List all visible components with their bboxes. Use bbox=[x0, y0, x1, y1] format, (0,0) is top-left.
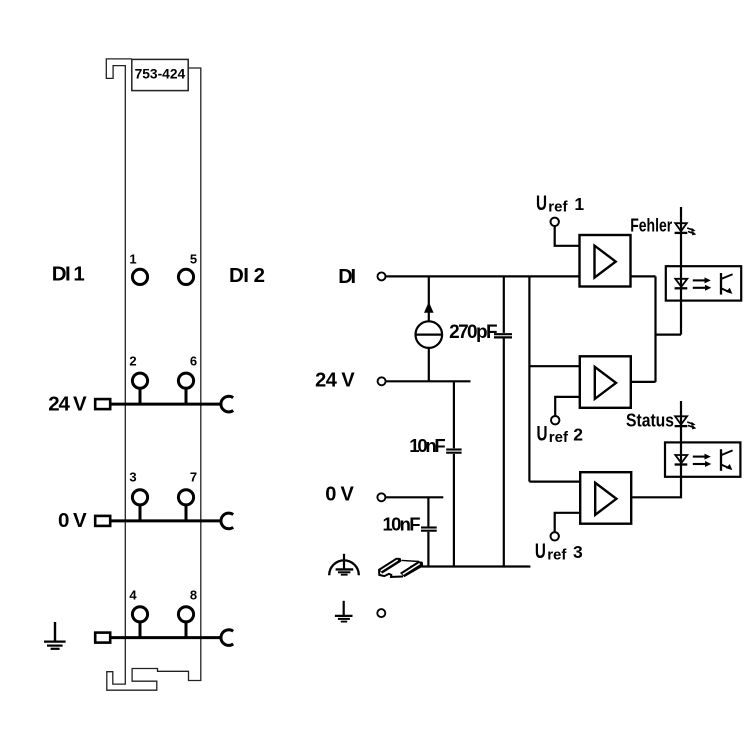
stem pin6 bbox=[185, 388, 188, 404]
Status optocoupler box bbox=[665, 442, 740, 476]
svg-text:24 V: 24 V bbox=[48, 393, 87, 416]
pin circle 6 bbox=[178, 373, 193, 388]
pin circle 4 bbox=[132, 607, 147, 622]
opto2 vertical wire through box bbox=[680, 442, 682, 477]
current source lower wire bbox=[428, 348, 430, 381]
stem pin4 bbox=[139, 622, 142, 638]
0V power rail row bbox=[95, 470, 233, 529]
Status LED vertical wire bbox=[680, 401, 682, 442]
amp1 output wire bbox=[631, 275, 656, 277]
pin circle 5 bbox=[178, 269, 193, 284]
Uref1 terminal circle bbox=[551, 218, 559, 226]
0V cage clamp hook bbox=[221, 513, 233, 529]
amp3 input wire bbox=[529, 481, 580, 483]
10nF capacitor 1 wire (upper) bbox=[453, 381, 455, 448]
earth rail row bbox=[95, 587, 233, 645]
stem pin2 bbox=[139, 388, 142, 404]
label Uref 1 bbox=[536, 192, 584, 215]
24V bus wire bbox=[110, 403, 222, 406]
svg-text:ref: ref bbox=[548, 199, 568, 216]
Uref2 wire bbox=[555, 397, 580, 416]
svg-text:4: 4 bbox=[129, 587, 137, 602]
op-amp U2 triangle bbox=[595, 367, 616, 399]
bottom terminal circle bbox=[377, 609, 385, 617]
Fehler LED vertical wire bbox=[680, 207, 682, 335]
svg-text:3: 3 bbox=[129, 470, 136, 485]
shield earth symbol bbox=[329, 554, 359, 575]
svg-text:DI 1: DI 1 bbox=[52, 263, 85, 286]
svg-text:Fehler: Fehler bbox=[630, 216, 672, 236]
stem pin3 bbox=[139, 505, 142, 521]
svg-text:U: U bbox=[537, 423, 548, 446]
svg-text:U: U bbox=[536, 192, 547, 215]
amp2 output wire bbox=[631, 381, 656, 383]
opto2 LED bbox=[675, 455, 688, 465]
Uref1 wire bbox=[555, 226, 580, 246]
svg-text:ref: ref bbox=[547, 547, 567, 564]
svg-text:1: 1 bbox=[574, 194, 584, 214]
amp3 output wire to Status opto bbox=[631, 477, 682, 497]
Fehler optocoupler box bbox=[666, 266, 741, 300]
Uref2 terminal circle bbox=[551, 416, 559, 424]
0V wire bbox=[386, 496, 444, 498]
svg-text:1: 1 bbox=[129, 251, 136, 266]
label box 753-424 bbox=[132, 59, 188, 90]
current source arrow bbox=[424, 302, 434, 313]
10nF capacitor 1 wire (lower) bbox=[453, 454, 455, 567]
ground symbol (module left) bbox=[44, 622, 66, 649]
svg-text:0 V: 0 V bbox=[58, 509, 87, 532]
module body outline bbox=[106, 59, 201, 690]
bottom earth symbol bbox=[335, 601, 353, 622]
10nF capacitor 2 plates bbox=[421, 526, 437, 528]
comparator input bus wire bbox=[528, 276, 530, 481]
current source chord bbox=[416, 334, 443, 336]
pin circle 8 bbox=[178, 607, 193, 622]
DIN carrier rail symbol bbox=[378, 558, 423, 577]
0V terminal circle bbox=[377, 493, 385, 501]
Uref3 wire bbox=[555, 513, 581, 532]
DI wire bbox=[386, 275, 580, 277]
24V power rail row bbox=[95, 354, 233, 412]
op-amp U3 box bbox=[580, 472, 631, 524]
pin circle 1 bbox=[132, 269, 147, 284]
270pF capacitor vertical wire (upper) bbox=[503, 276, 505, 333]
0V square terminal bbox=[95, 516, 110, 526]
link to Fehler optocoupler bbox=[656, 334, 682, 336]
opto2 phototransistor bbox=[721, 449, 733, 471]
opto1 phototransistor bbox=[721, 273, 733, 295]
DI terminal circle bbox=[378, 272, 386, 280]
Uref3 terminal circle bbox=[551, 532, 559, 540]
24V square terminal bbox=[95, 399, 110, 409]
label Uref 3 bbox=[535, 540, 583, 563]
svg-text:7: 7 bbox=[190, 470, 197, 485]
0V bus wire bbox=[110, 519, 222, 522]
pin circle 2 bbox=[132, 373, 147, 388]
svg-text:8: 8 bbox=[190, 587, 197, 602]
current source branch wire bbox=[428, 276, 430, 321]
amp output join bus bbox=[654, 276, 656, 382]
svg-text:753-424: 753-424 bbox=[135, 67, 186, 82]
270pF capacitor plates bbox=[494, 333, 512, 335]
svg-text:U: U bbox=[535, 540, 546, 563]
svg-text:270pF: 270pF bbox=[449, 322, 498, 343]
op-amp U1 box bbox=[580, 235, 631, 287]
amp2 input wire bbox=[529, 365, 579, 367]
svg-text:10nF: 10nF bbox=[409, 435, 445, 456]
svg-text:2: 2 bbox=[573, 425, 583, 445]
svg-text:DI 2: DI 2 bbox=[229, 264, 265, 287]
svg-text:5: 5 bbox=[190, 251, 197, 266]
svg-text:2: 2 bbox=[129, 354, 136, 369]
opto1 light arrows bbox=[693, 277, 712, 290]
svg-text:ref: ref bbox=[549, 429, 569, 446]
current source circle bbox=[416, 321, 443, 348]
stem pin8 bbox=[185, 622, 188, 638]
label Uref 2 bbox=[537, 423, 584, 446]
svg-text:DI: DI bbox=[338, 266, 356, 288]
op-amp U2 box bbox=[580, 356, 631, 408]
svg-text:Status: Status bbox=[626, 410, 674, 430]
10nF capacitor 2 wire (lower) bbox=[427, 532, 429, 567]
pin circle 7 bbox=[178, 490, 193, 505]
earth cage clamp hook bbox=[221, 630, 233, 646]
svg-text:3: 3 bbox=[573, 542, 583, 562]
svg-text:24 V: 24 V bbox=[315, 369, 355, 391]
svg-text:0 V: 0 V bbox=[325, 483, 354, 505]
24V wire bbox=[386, 380, 471, 382]
op-amp U3 triangle bbox=[595, 483, 616, 515]
Status LED bbox=[675, 416, 697, 429]
earth square terminal bbox=[95, 633, 110, 643]
24V cage clamp hook bbox=[221, 396, 233, 412]
op-amp U1 triangle bbox=[595, 246, 616, 278]
Fehler LED bbox=[675, 223, 697, 235]
stem pin7 bbox=[185, 505, 188, 521]
earth bus wire bbox=[110, 636, 222, 639]
opto2 light arrows bbox=[693, 454, 712, 467]
270pF capacitor vertical wire (lower) bbox=[503, 339, 505, 567]
svg-text:6: 6 bbox=[190, 354, 197, 369]
svg-text:10nF: 10nF bbox=[383, 514, 421, 535]
opto1 LED bbox=[675, 279, 688, 289]
24V terminal circle bbox=[378, 377, 386, 385]
shield ground wire bbox=[410, 565, 530, 567]
pin circle 3 bbox=[132, 490, 147, 505]
10nF capacitor 2 wire (upper) bbox=[427, 497, 429, 526]
10nF capacitor 1 plates bbox=[446, 448, 461, 450]
